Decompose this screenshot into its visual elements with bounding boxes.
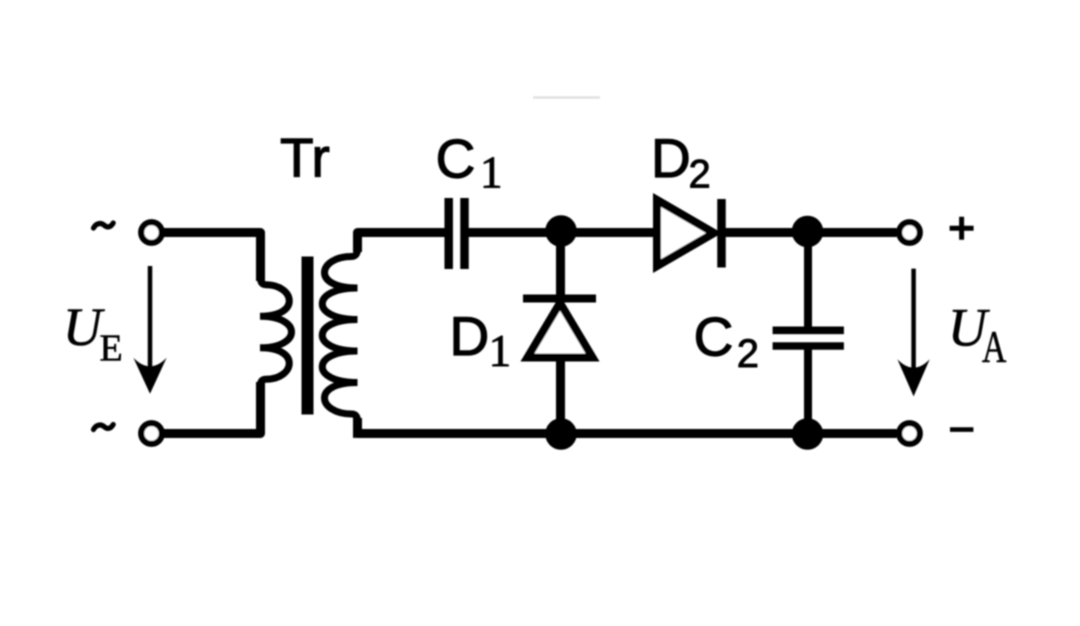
svg-text:C: C <box>436 128 476 190</box>
svg-text:A: A <box>982 322 1007 372</box>
input terminal top <box>141 222 162 243</box>
wire D2 to output top <box>726 228 897 237</box>
capacitor C1 <box>444 198 453 269</box>
svg-text:1: 1 <box>489 326 512 376</box>
node A (top junction C1/D1) <box>545 215 577 247</box>
transformer core <box>302 257 314 415</box>
svg-text:1: 1 <box>480 147 503 197</box>
svg-text:2: 2 <box>689 152 711 196</box>
output terminal minus <box>899 423 920 444</box>
node C (bottom junction D1) <box>545 418 577 450</box>
diode D1 <box>523 295 596 303</box>
UE arrow <box>148 266 153 372</box>
UA arrow <box>911 269 916 374</box>
wire node B down to C2 <box>804 232 812 328</box>
plus sign <box>950 217 974 240</box>
wire input bottom to transformer <box>164 382 261 434</box>
wire C1 to D2 <box>469 228 658 237</box>
AC tilde top <box>94 223 114 228</box>
svg-text:C: C <box>694 306 734 368</box>
diode D2 <box>657 200 714 266</box>
faint artifact line <box>533 96 600 98</box>
wire secondary bottom lead <box>353 418 362 438</box>
minus sign <box>950 427 973 432</box>
svg-text:2: 2 <box>737 332 759 376</box>
svg-text:E: E <box>100 328 123 370</box>
transformer Tr primary winding <box>260 278 292 385</box>
output terminal plus <box>899 222 920 243</box>
wire secondary top to C1 <box>358 233 445 253</box>
node B (top junction C2/output) <box>792 216 824 248</box>
wire input top to transformer <box>164 233 261 282</box>
svg-text:D: D <box>651 127 691 189</box>
input terminal bottom <box>141 423 162 444</box>
svg-text:D: D <box>450 305 490 367</box>
wire node A down to D1 <box>556 232 565 295</box>
capacitor C2 <box>773 326 844 334</box>
bottom rail wire <box>358 429 897 438</box>
svg-text:Tr: Tr <box>280 127 330 189</box>
transformer Tr secondary winding <box>322 249 357 421</box>
AC tilde bottom <box>94 425 114 430</box>
node D (bottom junction C2) <box>792 418 824 450</box>
